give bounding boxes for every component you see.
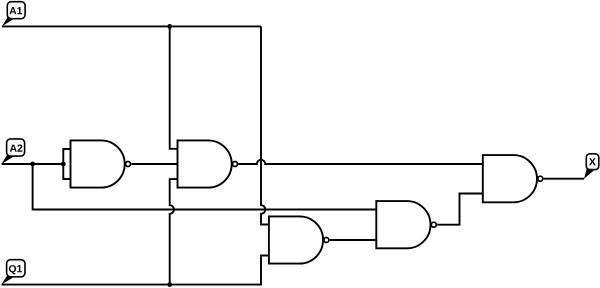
nand gate U2 <box>178 140 238 187</box>
wire U1 output to U2 <box>131 163 177 165</box>
junction U1 tie <box>61 162 66 167</box>
nand gate U5 <box>483 155 543 202</box>
wire U4 output to U5 bottom input <box>437 194 483 225</box>
nand gate U4 <box>376 201 436 248</box>
junction A1 net / U2 branch <box>167 24 172 29</box>
output flag X <box>584 154 599 179</box>
wire U2 output to U5 top input with hop over A1 vertical <box>238 160 482 164</box>
wire U5 output to X flag <box>544 178 585 180</box>
input flag A1 <box>2 2 25 27</box>
wire Q1 net bottom horizontal to U3 bottom input <box>2 256 269 285</box>
wire A2 input <box>2 163 64 165</box>
wire A1 down to U3 top input with hop over A2 wire <box>261 26 269 224</box>
wire A1 branch to U2 top input <box>170 26 178 148</box>
nand gate U1 <box>71 140 131 187</box>
wire U3 output to U4 bottom input <box>330 239 377 241</box>
junction Q1 net / U2 branch <box>167 282 172 287</box>
input flag Q1 <box>2 260 26 285</box>
junction A2 branch <box>30 162 35 167</box>
nand gate U3 <box>269 216 329 263</box>
wire A1 net top horizontal <box>2 25 261 27</box>
wire U1 input tie <box>63 149 70 179</box>
wire U2 bottom input to Q1 net with hop over A2 wire <box>170 179 178 285</box>
wire A2 to U4 top input <box>33 164 377 210</box>
input flag A2 <box>2 139 25 164</box>
